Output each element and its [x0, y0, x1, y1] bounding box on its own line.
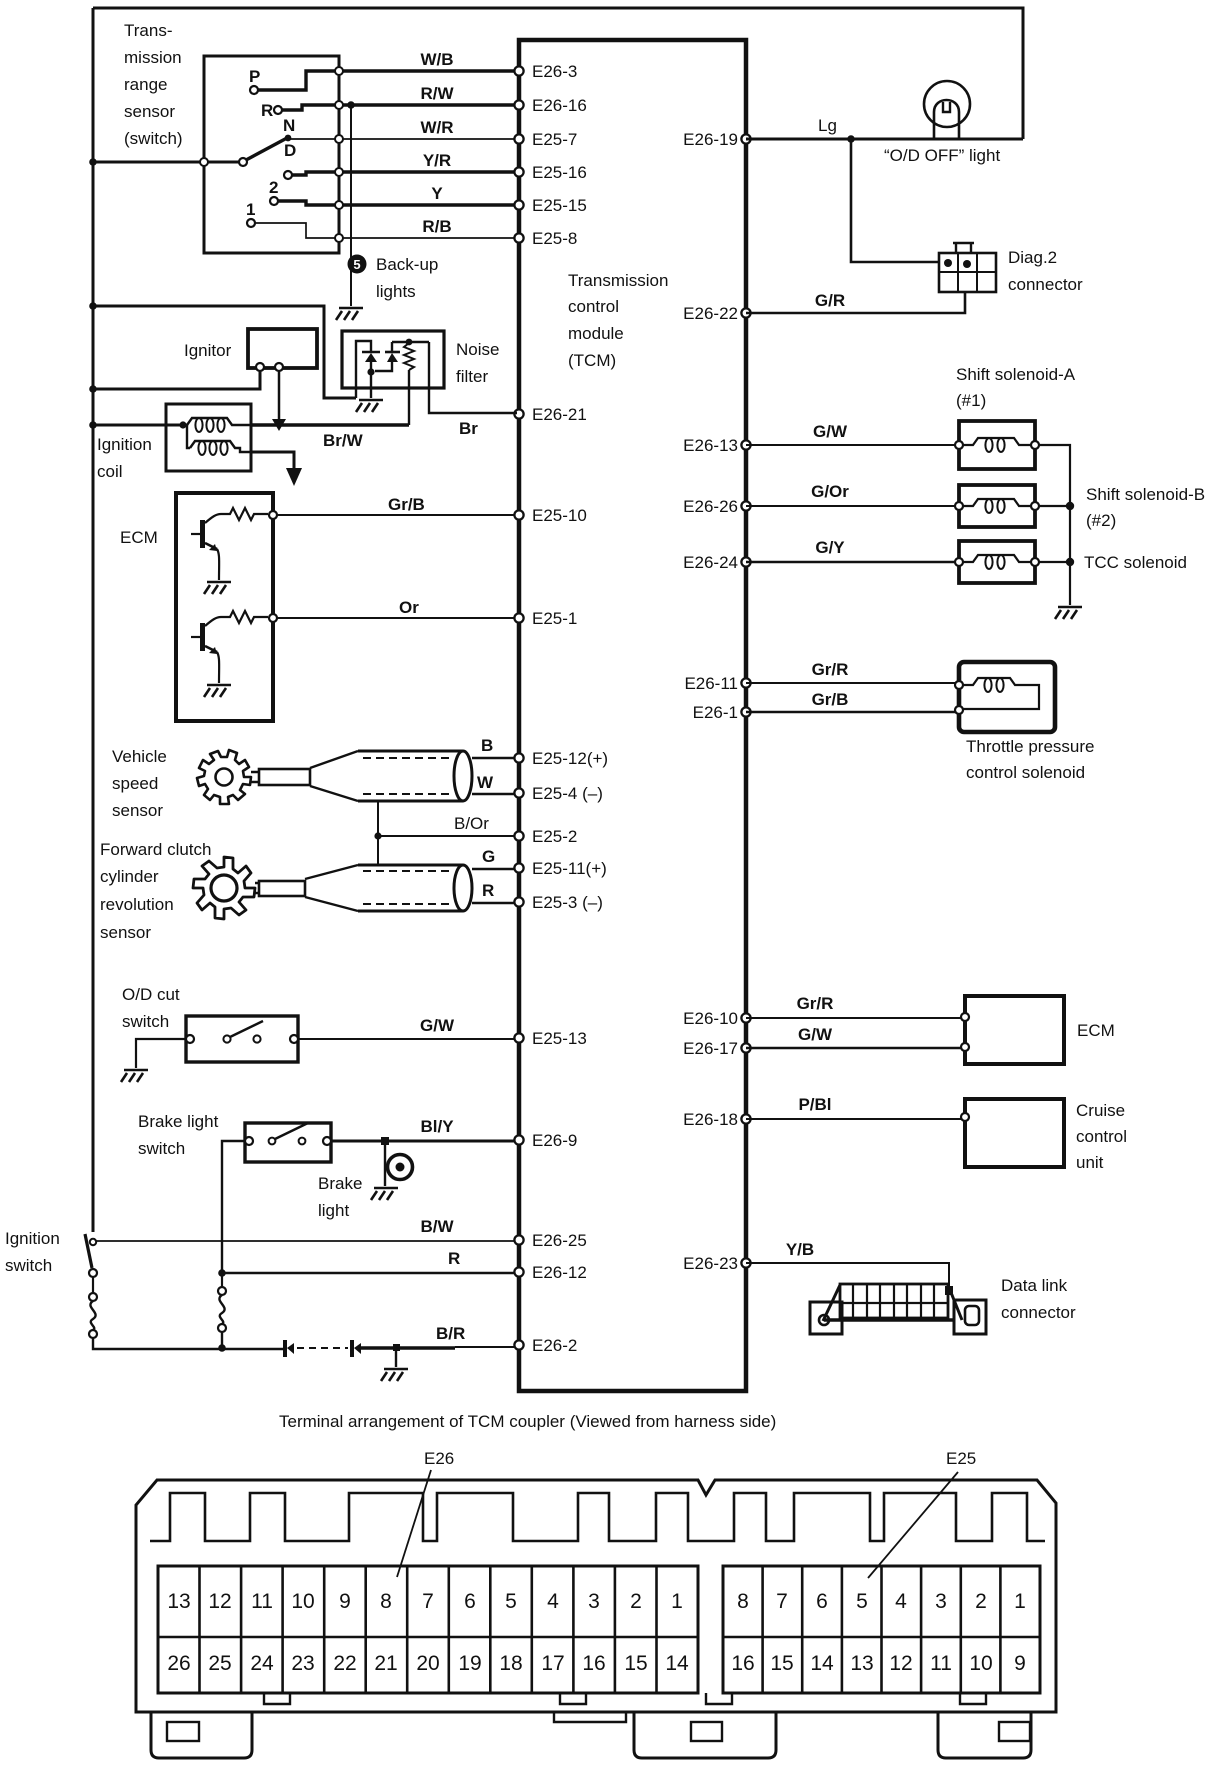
wire P to bus — [258, 71, 339, 90]
pin E25-10 terminal — [514, 510, 523, 519]
wire G/W to E25-13 — [298, 1038, 514, 1040]
svg-text:E26-17: E26-17 — [683, 1039, 738, 1058]
pin E26-1 terminal — [741, 707, 750, 716]
svg-text:5: 5 — [353, 257, 360, 272]
svg-text:control: control — [568, 297, 619, 316]
ground solenoids — [1055, 607, 1082, 619]
pin E25-2 terminal — [514, 831, 523, 840]
data link right end — [948, 1285, 962, 1320]
svg-text:G/W: G/W — [420, 1016, 455, 1035]
svg-text:E25-4 (–): E25-4 (–) — [532, 784, 603, 803]
svg-text:10: 10 — [969, 1652, 992, 1675]
svg-text:14: 14 — [665, 1652, 689, 1675]
wire W/R — [339, 138, 517, 140]
ignition switch contact chain — [89, 1269, 97, 1277]
svg-text:W/R: W/R — [420, 118, 453, 137]
ground noise filter — [356, 400, 383, 412]
E26 pin block — [158, 1566, 698, 1693]
diode D1 — [362, 351, 380, 354]
brake switch arm — [275, 1123, 308, 1139]
wire Br to E26-21 — [429, 342, 517, 413]
svg-text:E26-13: E26-13 — [683, 436, 738, 455]
svg-text:B: B — [481, 736, 493, 755]
svg-text:R: R — [448, 1249, 460, 1268]
connector pair symbol 2 — [350, 1340, 354, 1357]
transistor Q2 — [221, 611, 268, 623]
vss shielded pair dashed — [363, 758, 454, 794]
node bus crossing Y — [335, 201, 343, 209]
pin E26-22 terminal — [741, 308, 750, 317]
wire R/B — [339, 237, 517, 239]
svg-text:Ignition: Ignition — [97, 435, 152, 454]
svg-text:G/W: G/W — [798, 1025, 833, 1044]
node frame-coil junction — [89, 421, 97, 429]
pin E26-18 terminal — [741, 1114, 750, 1123]
svg-text:13: 13 — [167, 1590, 190, 1613]
pin E26-26 terminal — [741, 501, 750, 510]
svg-text:4: 4 — [547, 1590, 559, 1613]
svg-text:Back-up: Back-up — [376, 255, 438, 274]
ignitor U1 box — [248, 329, 317, 368]
ground backup lights — [336, 308, 363, 320]
svg-text:2: 2 — [269, 178, 278, 197]
wire G — [472, 868, 514, 870]
svg-text:switch: switch — [122, 1012, 169, 1031]
svg-text:W: W — [477, 773, 494, 792]
svg-text:E26-23: E26-23 — [683, 1254, 738, 1273]
svg-text:E25-12(+): E25-12(+) — [532, 749, 608, 768]
pin E26-9 terminal — [514, 1135, 523, 1144]
wire B/R — [361, 1346, 455, 1349]
svg-text:R/W: R/W — [420, 84, 454, 103]
ignition switch blade — [85, 1234, 92, 1268]
svg-text:9: 9 — [1014, 1652, 1026, 1675]
svg-text:E26-9: E26-9 — [532, 1131, 577, 1150]
coupler foot — [938, 1712, 1031, 1758]
ECM right box — [965, 996, 1064, 1064]
wire Gr/R ECM — [746, 1017, 965, 1019]
svg-text:(#2): (#2) — [1086, 511, 1116, 530]
data link connector body — [840, 1284, 948, 1318]
svg-text:Br/W: Br/W — [323, 431, 364, 450]
svg-text:E26-21: E26-21 — [532, 405, 587, 424]
wire supply line to noise filter — [93, 306, 356, 398]
svg-text:E25-1: E25-1 — [532, 609, 577, 628]
node brake feed junction R — [218, 1269, 226, 1277]
E25 pin block — [723, 1566, 1040, 1693]
distributor arrow — [286, 468, 302, 486]
svg-text:E26-10: E26-10 — [683, 1009, 738, 1028]
svg-text:Data link: Data link — [1001, 1276, 1068, 1295]
svg-text:G/Y: G/Y — [815, 538, 845, 557]
svg-text:10: 10 — [291, 1590, 314, 1613]
svg-text:11: 11 — [251, 1590, 273, 1613]
wire range sensor common — [93, 161, 239, 164]
svg-text:15: 15 — [770, 1652, 793, 1675]
svg-text:20: 20 — [416, 1652, 439, 1675]
svg-text:G: G — [482, 847, 495, 866]
fusible link left — [90, 1301, 95, 1330]
wire dashed interconnect — [297, 1347, 348, 1349]
svg-text:ECM: ECM — [120, 528, 158, 547]
node bus crossing Y/R — [335, 168, 343, 176]
wire R sensor — [472, 902, 514, 904]
vss probe taper — [310, 751, 358, 801]
data link bottom bar — [824, 1318, 954, 1321]
pin E26-16 terminal — [514, 100, 523, 109]
wire B/W — [96, 1240, 514, 1242]
pin E26-25 terminal — [514, 1235, 523, 1244]
node resistor top — [406, 339, 413, 346]
svg-text:Brake: Brake — [318, 1174, 362, 1193]
svg-text:E25-16: E25-16 — [532, 163, 587, 182]
svg-text:D: D — [284, 141, 296, 160]
svg-text:E25-15: E25-15 — [532, 196, 587, 215]
pin E25-1 terminal — [514, 613, 523, 622]
wire coil couple — [187, 425, 190, 448]
svg-text:E26-11: E26-11 — [684, 674, 738, 693]
svg-text:(TCM): (TCM) — [568, 351, 616, 370]
svg-text:light: light — [318, 1201, 349, 1220]
wire shield drain B/Or — [377, 801, 379, 865]
svg-text:E26-3: E26-3 — [532, 62, 577, 81]
svg-text:“O/D OFF” light: “O/D OFF” light — [884, 146, 1000, 165]
coupler foot — [151, 1712, 252, 1758]
wire Or — [277, 617, 514, 619]
wire solenoid A return — [1039, 445, 1070, 605]
svg-text:sensor: sensor — [124, 102, 175, 121]
svg-text:G/W: G/W — [813, 422, 848, 441]
svg-text:Or: Or — [399, 598, 419, 617]
wire D2 to node — [375, 362, 392, 371]
pin E25-7 terminal — [514, 134, 523, 143]
wire BrW — [251, 423, 409, 426]
svg-text:P/Bl: P/Bl — [798, 1095, 831, 1114]
wire Bl/Y — [331, 1140, 514, 1143]
TCC solenoid — [959, 541, 1035, 583]
wire G/W solenoid A — [746, 444, 959, 446]
lamp O/D OFF light — [924, 81, 970, 127]
wire resistor to BrW — [408, 370, 410, 425]
svg-text:N: N — [283, 116, 295, 135]
svg-text:E26-2: E26-2 — [532, 1336, 577, 1355]
node solenoid B return — [1039, 505, 1070, 507]
svg-text:7: 7 — [422, 1590, 434, 1613]
pin E25-11(+) terminal — [514, 863, 523, 872]
svg-text:6: 6 — [464, 1590, 476, 1613]
wire D2 top — [391, 342, 393, 352]
brake light switch box — [245, 1123, 331, 1162]
svg-text:3: 3 — [588, 1590, 600, 1613]
O/D cut switch box — [186, 1016, 298, 1062]
wire Gr/B throttle — [746, 711, 959, 714]
wire G/Y TCC solenoid — [746, 561, 959, 564]
pin E26-23 terminal — [741, 1258, 750, 1267]
transmission range sensor box — [204, 56, 339, 253]
node coil input — [179, 421, 186, 428]
node bus crossing W/R — [335, 135, 343, 143]
wire G/Or solenoid B — [746, 505, 959, 507]
svg-text:cylinder: cylinder — [100, 867, 159, 886]
wire O/D switch to ground — [136, 1039, 186, 1068]
brake switch terminals — [245, 1137, 253, 1145]
svg-text:R: R — [482, 881, 494, 900]
svg-text:revolution: revolution — [100, 895, 174, 914]
pin E25-16 terminal — [514, 167, 523, 176]
brake switch contacts — [269, 1138, 276, 1145]
wire R/W — [339, 103, 517, 106]
wire R — [222, 1272, 514, 1274]
Diag.2 connector — [939, 253, 996, 292]
svg-text:Trans-: Trans- — [124, 21, 173, 40]
brake feed contact chain — [221, 1273, 223, 1287]
svg-text:1: 1 — [671, 1590, 683, 1613]
pin E26-10 terminal — [741, 1013, 750, 1022]
svg-text:E25-13: E25-13 — [532, 1029, 587, 1048]
wire backup lights drop — [350, 105, 352, 306]
pin E26-11 terminal — [741, 678, 750, 687]
pin E25-13 terminal — [514, 1033, 523, 1042]
connector pair symbol 1 — [283, 1340, 287, 1357]
wire Y — [339, 203, 517, 206]
node TCC return — [1039, 561, 1070, 563]
svg-text:E25-10: E25-10 — [532, 506, 587, 525]
pin E26-17 terminal — [741, 1043, 750, 1052]
svg-text:Ignitor: Ignitor — [184, 341, 232, 360]
svg-text:filter: filter — [456, 367, 488, 386]
svg-text:R/B: R/B — [422, 217, 451, 236]
svg-text:TCC solenoid: TCC solenoid — [1084, 553, 1187, 572]
svg-text:2: 2 — [975, 1590, 987, 1613]
wire top frame feed — [93, 8, 1023, 139]
coupler bottom step — [554, 1712, 626, 1722]
svg-text:16: 16 — [731, 1652, 754, 1675]
wire to brake light — [384, 1141, 386, 1186]
wire ignitor t2 to BrW — [278, 371, 281, 421]
wire Gr/B — [277, 514, 514, 516]
svg-text:E26: E26 — [424, 1449, 454, 1468]
cruise control unit box — [965, 1099, 1064, 1167]
svg-text:12: 12 — [889, 1652, 912, 1675]
ground Q1 emitter — [204, 582, 231, 594]
resistor noise filter — [404, 343, 414, 370]
node R/W backup junction — [347, 101, 355, 109]
wire P/Bl cruise — [746, 1118, 965, 1120]
fusible link right — [219, 1295, 224, 1324]
diode D2 — [385, 351, 400, 354]
wire node to ground — [370, 372, 372, 398]
svg-text:E25-11(+): E25-11(+) — [532, 859, 607, 878]
wire B — [472, 757, 514, 759]
vss shield cylinder — [358, 751, 463, 801]
svg-text:2: 2 — [630, 1590, 642, 1613]
svg-text:Y/R: Y/R — [423, 151, 451, 170]
svg-text:Gr/R: Gr/R — [797, 994, 834, 1013]
svg-text:24: 24 — [250, 1652, 274, 1675]
throttle pressure control solenoid — [959, 662, 1055, 732]
svg-text:Y: Y — [431, 184, 443, 203]
wire Y/B — [746, 1263, 949, 1287]
svg-text:5: 5 — [505, 1590, 517, 1613]
ground Q2 emitter — [204, 685, 231, 697]
svg-text:Gr/B: Gr/B — [388, 495, 425, 514]
node bus crossing W/B — [335, 67, 343, 75]
shift solenoid-A — [959, 421, 1035, 469]
node B/R ground junction — [393, 1344, 400, 1351]
svg-text:(switch): (switch) — [124, 129, 183, 148]
svg-text:control: control — [1076, 1127, 1127, 1146]
svg-text:5: 5 — [856, 1590, 868, 1613]
svg-text:Vehicle: Vehicle — [112, 747, 167, 766]
wire Y/R — [339, 170, 517, 173]
pin E26-2 terminal — [514, 1340, 523, 1349]
ignition switch tap contact — [90, 1239, 96, 1245]
svg-text:lights: lights — [376, 282, 416, 301]
pin E26-24 terminal — [741, 557, 750, 566]
pin E25-8 terminal — [514, 233, 523, 242]
svg-text:Y/B: Y/B — [786, 1240, 814, 1259]
wire W/B — [339, 69, 517, 72]
vss probe — [251, 772, 259, 782]
pin E26-19 terminal — [741, 134, 750, 143]
svg-text:Shift solenoid-A: Shift solenoid-A — [956, 365, 1076, 384]
svg-text:B/W: B/W — [420, 1217, 454, 1236]
node common box-edge circle — [200, 158, 208, 166]
svg-text:E26-18: E26-18 — [683, 1110, 738, 1129]
forward clutch revolution sensor gear — [193, 857, 255, 919]
svg-text:Ignition: Ignition — [5, 1229, 60, 1248]
svg-text:E26-12: E26-12 — [532, 1263, 587, 1282]
wire left frame feed — [92, 8, 95, 1232]
svg-text:Throttle pressure: Throttle pressure — [966, 737, 1095, 756]
pin E26-12 terminal — [514, 1267, 523, 1276]
svg-text:4: 4 — [895, 1590, 907, 1613]
svg-text:19: 19 — [458, 1652, 481, 1675]
terminal Q1 output — [269, 511, 277, 519]
svg-text:Noise: Noise — [456, 340, 499, 359]
svg-text:11: 11 — [930, 1652, 952, 1675]
node frame-ignitor junction — [89, 385, 97, 393]
ignitor terminal 2 — [275, 363, 283, 371]
svg-text:15: 15 — [624, 1652, 647, 1675]
svg-text:7: 7 — [776, 1590, 788, 1613]
O/D cut switch left terminal — [186, 1035, 194, 1043]
data link left end — [823, 1285, 840, 1321]
wire D to bus — [292, 172, 339, 175]
node frame-common junction — [89, 158, 97, 166]
svg-text:1: 1 — [246, 200, 255, 219]
coupler shell — [136, 1480, 1056, 1712]
svg-text:O/D cut: O/D cut — [122, 985, 180, 1004]
svg-text:B/R: B/R — [436, 1324, 465, 1343]
svg-text:Shift solenoid-B: Shift solenoid-B — [1086, 485, 1205, 504]
ECM left box — [176, 493, 273, 721]
transistor Q1 — [221, 508, 268, 520]
svg-text:E26-24: E26-24 — [683, 553, 738, 572]
wire to body ground — [395, 1350, 397, 1367]
ground O/D cut switch — [121, 1070, 148, 1082]
svg-text:1: 1 — [1014, 1590, 1026, 1613]
svg-text:mission: mission — [124, 48, 182, 67]
svg-text:18: 18 — [499, 1652, 522, 1675]
svg-text:range: range — [124, 75, 167, 94]
svg-text:Brake light: Brake light — [138, 1112, 219, 1131]
pin E25-4 (-) terminal — [514, 788, 523, 797]
svg-text:switch: switch — [138, 1139, 185, 1158]
svg-text:16: 16 — [582, 1652, 605, 1675]
terminal Q2 output — [269, 614, 277, 622]
wire R to bus — [282, 105, 339, 110]
noise filter input branch — [356, 341, 371, 398]
wire Gr/R throttle — [746, 682, 959, 684]
svg-text:17: 17 — [541, 1652, 564, 1675]
wire frame to coil — [93, 424, 187, 427]
lamp back-up lights — [348, 255, 367, 274]
node noise filter gnd node — [367, 368, 374, 375]
wire brake switch feed — [222, 1141, 245, 1273]
svg-text:Bl/Y: Bl/Y — [420, 1117, 454, 1136]
svg-text:module: module — [568, 324, 624, 343]
svg-text:W/B: W/B — [420, 50, 453, 69]
O/D cut switch right terminal — [290, 1035, 298, 1043]
svg-text:Gr/B: Gr/B — [812, 690, 849, 709]
svg-text:Lg: Lg — [818, 116, 837, 135]
inductor coil primary — [187, 418, 251, 425]
pin E25-15 terminal — [514, 200, 523, 209]
wire noise filter top rail — [392, 341, 429, 343]
lamp brake light — [388, 1155, 413, 1180]
TCM transmission control module box — [519, 40, 746, 1391]
svg-text:G/Or: G/Or — [811, 482, 849, 501]
svg-text:connector: connector — [1001, 1303, 1076, 1322]
wire G/W ECM — [746, 1047, 965, 1050]
svg-text:E26-25: E26-25 — [532, 1231, 587, 1250]
node bottom feed junction — [218, 1344, 226, 1352]
noise filter box — [342, 331, 444, 388]
svg-text:23: 23 — [291, 1652, 314, 1675]
data link wire arrow — [945, 1286, 953, 1295]
svg-text:B/Or: B/Or — [454, 814, 489, 833]
wire G/R — [746, 292, 965, 313]
svg-text:Transmission: Transmission — [568, 271, 668, 290]
node frame-supply junction — [89, 302, 97, 310]
svg-text:Diag.2: Diag.2 — [1008, 248, 1057, 267]
svg-text:13: 13 — [850, 1652, 873, 1675]
fcs probe — [255, 883, 259, 893]
coupler castellation — [150, 1493, 1045, 1541]
svg-text:E25-7: E25-7 — [532, 130, 577, 149]
node brake light junction — [381, 1137, 389, 1145]
wire 2 to bus — [278, 201, 339, 205]
O/D cut switch arm — [230, 1021, 263, 1037]
wire Lg — [746, 138, 1023, 141]
ground body — [381, 1369, 408, 1381]
svg-text:switch: switch — [5, 1256, 52, 1275]
wire to distributor arrow — [251, 452, 294, 470]
O/D cut switch contacts — [223, 1035, 230, 1042]
svg-text:E25-2: E25-2 — [532, 827, 577, 846]
pin E26-3 terminal — [514, 66, 523, 75]
svg-text:E26-22: E26-22 — [683, 304, 738, 323]
pin E25-12(+) terminal — [514, 753, 523, 762]
svg-text:E26-26: E26-26 — [683, 497, 738, 516]
svg-text:sensor: sensor — [112, 801, 163, 820]
node common contact — [239, 158, 247, 166]
fcs probe taper — [305, 865, 358, 911]
coupler notch — [560, 1693, 586, 1704]
node Lg junction — [847, 135, 855, 143]
wire ignitor t1 to frame — [93, 371, 260, 389]
